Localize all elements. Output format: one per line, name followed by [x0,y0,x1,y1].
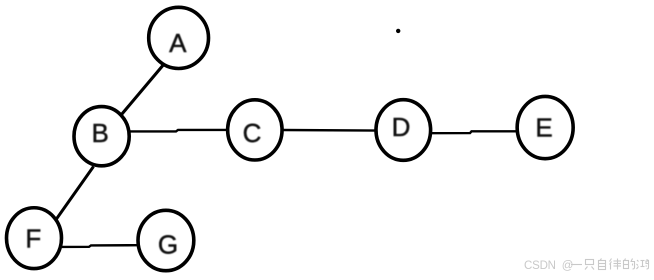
node F circle [7,208,62,269]
node D circle [376,100,431,161]
node B circle [74,107,129,166]
node E circle [517,96,573,158]
watermark hanzi yi [571,264,582,266]
svg-text:C: C [243,118,262,148]
wire edge D-E [427,131,517,133]
wire edge B-C [129,130,228,132]
watermark hanzi zi [599,259,606,270]
svg-text:A: A [169,28,187,58]
node G circle [138,210,194,270]
wire edge B-F [55,167,94,222]
watermark hanzi hong [637,260,649,270]
node C circle [228,100,282,160]
wire edge F-G [62,245,139,247]
wire edge A-B [122,64,165,115]
watermark hanzi lv [610,259,622,270]
watermark hanzi de [624,259,635,270]
svg-text:E: E [535,113,552,143]
svg-text:D: D [392,112,411,142]
wire edge C-D [283,129,380,132]
watermark hanzi zhi [585,260,594,270]
svg-text:CSDN @: CSDN @ [524,260,573,272]
svg-text:B: B [92,118,109,148]
stray ink dot [396,29,400,33]
svg-text:F: F [25,224,41,254]
svg-text:G: G [158,230,178,260]
node A circle [149,7,209,68]
